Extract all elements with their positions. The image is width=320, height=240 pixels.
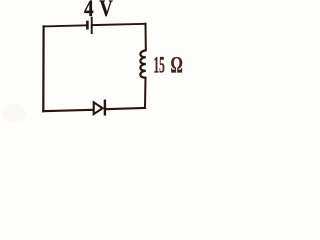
svg-text:15: 15 bbox=[154, 53, 165, 79]
svg-text:4: 4 bbox=[84, 0, 94, 22]
wire left side bbox=[42, 26, 44, 111]
diode D1 cathode bar bbox=[104, 100, 106, 116]
battery B1 positive plate (tall thin) bbox=[91, 17, 93, 34]
resistor R1 coil bbox=[140, 50, 145, 77]
faint scan smudge bottom-left bbox=[2, 104, 26, 122]
wire bottom-left segment bbox=[43, 110, 92, 111]
wire bottom-right segment bbox=[106, 108, 145, 109]
wire top-left segment bbox=[44, 25, 87, 26]
svg-text:Ω: Ω bbox=[171, 53, 183, 79]
svg-text:V: V bbox=[99, 0, 112, 22]
battery B1 negative plate (short thick) bbox=[86, 21, 89, 30]
wire right side upper segment bbox=[145, 24, 147, 51]
wire right side lower segment bbox=[144, 78, 147, 108]
wire top-right segment bbox=[93, 24, 146, 25]
diode D1 anode triangle bbox=[94, 102, 103, 114]
